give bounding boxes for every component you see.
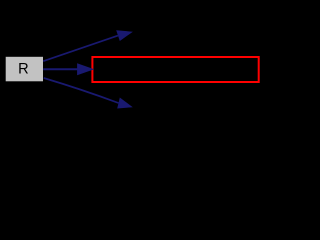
arrowhead: bottom edge: [117, 98, 133, 109]
arrowhead: top edge: [116, 30, 133, 41]
node target (red outlined rectangle): [92, 57, 258, 82]
arrowhead: middle edge: [77, 63, 94, 75]
node R (gray box): [6, 57, 43, 82]
wire: bottom edge curve: [44, 78, 119, 103]
node R label glyph: [19, 63, 28, 73]
wire: top edge line: [43, 36, 118, 62]
wire: middle edge line: [43, 68, 81, 70]
